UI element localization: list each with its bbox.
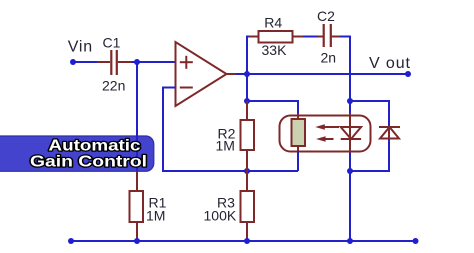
node: R2/R3 junction <box>244 168 250 174</box>
wire: op-amp output to V out <box>227 73 239 75</box>
node: R3 ground <box>244 238 250 244</box>
LDR (photoresistor) <box>292 113 306 152</box>
banner text <box>30 138 147 171</box>
svg-text:1M: 1M <box>146 207 165 223</box>
node: input junction <box>134 59 140 65</box>
node: LED bottom junction <box>347 168 353 174</box>
node: output junction <box>244 71 250 77</box>
title banner <box>0 136 154 171</box>
node: LED ground <box>347 238 353 244</box>
node: R2 top junction <box>244 98 250 104</box>
svg-text:Vin: Vin <box>68 39 93 56</box>
wire: rail to LDR top <box>247 101 298 114</box>
capacitor C2 <box>317 8 345 66</box>
svg-text:Automatic: Automatic <box>49 138 141 155</box>
light arrow 1 <box>315 124 339 130</box>
wire: LDR bottom to feedback wire <box>297 151 299 171</box>
LED D1 (inside optocoupler) <box>341 113 361 152</box>
svg-text:R4: R4 <box>264 15 282 31</box>
resistor R3 <box>204 171 255 241</box>
wire: C2 right down to LED (crosses Vout rail) <box>340 37 350 114</box>
svg-text:1M: 1M <box>216 138 235 154</box>
op-amp U1 <box>176 42 227 106</box>
svg-text:V out: V out <box>369 55 411 72</box>
node: R1 ground <box>134 238 140 244</box>
wire: output vertical up to R4 and down to R2 <box>247 37 258 102</box>
node: ground rail right end <box>413 238 419 244</box>
node: ground rail left end <box>68 238 74 244</box>
wire: diode loop <box>350 101 389 127</box>
wire: feedback to -input <box>163 88 298 172</box>
resistor R2 <box>216 101 255 171</box>
svg-text:2n: 2n <box>321 50 337 66</box>
node: V out terminal <box>405 71 411 77</box>
wire: ground rail <box>71 240 416 242</box>
wire: C1 to +input junction to op-amp <box>128 61 176 63</box>
svg-text:100K: 100K <box>204 208 237 224</box>
wire: input junction down to R1 <box>136 62 138 172</box>
node: Vin terminal <box>70 59 76 65</box>
node: LED top junction <box>347 98 353 104</box>
svg-text:22n: 22n <box>102 78 125 94</box>
optocoupler U2 body <box>280 116 371 152</box>
resistor R4 <box>249 15 324 59</box>
svg-text:33K: 33K <box>262 42 288 58</box>
capacitor C1 <box>97 50 131 75</box>
wire: LED bottom to ground rail <box>349 151 351 241</box>
svg-text:C2: C2 <box>317 8 335 24</box>
wire: Vin to C1 <box>73 61 100 63</box>
svg-text:C1: C1 <box>103 35 121 51</box>
diode D2 <box>379 127 400 139</box>
resistor R1 <box>130 171 167 241</box>
light arrow 2 <box>316 136 334 142</box>
svg-text:Gain Control: Gain Control <box>30 154 147 171</box>
